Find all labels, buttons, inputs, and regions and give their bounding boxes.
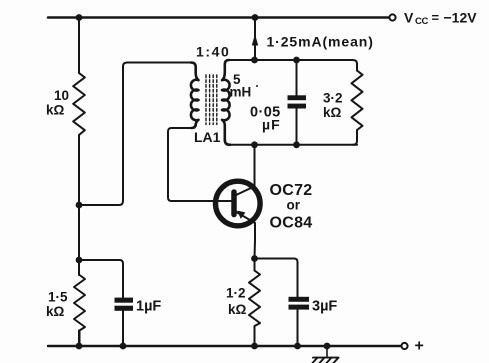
label 3.2 kOhm [323,91,343,121]
wire emitter to C3 top [255,259,298,298]
wire primary-bottom to base [168,128,232,201]
label 1.5 kOhm [46,290,68,320]
terminal Vcc [389,14,395,20]
node emitter junction [251,255,258,262]
wire top supply rail [48,16,388,19]
current arrow 1.25 mA [252,34,258,46]
svg-text:−12V: −12V [444,10,478,26]
wire left rail middle [78,135,80,275]
node tank bottom left [251,141,258,148]
svg-text:1µF: 1µF [136,299,161,315]
wire ground stub [326,346,328,358]
transistor Q1 emitter arrowhead [237,211,245,219]
capacitor C1 0.05uF plates [288,95,307,108]
svg-text:CC: CC [415,16,429,27]
wire collector lead [254,145,256,188]
transistor Q1 collector stroke [234,187,253,196]
node tank top left [251,57,258,64]
wire capacitor C2 bottom lead [122,310,124,346]
wire left rail lower [78,331,80,347]
transformer core [206,75,217,125]
label 0.05 uF [250,105,281,133]
wire capacitor C1 top lead [296,60,298,96]
svg-text:+: + [415,338,424,355]
capacitor C2 1uF plates [115,298,134,311]
svg-text:3µF: 3µF [312,299,337,315]
node bottom rail R3 [76,343,83,350]
svg-text:kΩ: kΩ [46,304,65,319]
node tank bottom capacitor tap [293,141,300,148]
svg-text:µF: µF [262,117,281,133]
wire bottom rail [48,345,400,347]
label 1.2 kOhm [226,286,247,318]
wire base feed from supply (left jog to transformer primary top) [79,63,191,206]
wire tank top line [227,60,357,71]
resistor R3 1.5k [74,275,85,346]
svg-text:mH: mH [230,85,252,100]
svg-text:or: or [287,198,301,213]
resistor R2 3.2k [352,71,363,145]
node junction left rail upper tap [76,202,83,209]
label 10 kOhm [46,88,69,118]
svg-text:1·2: 1·2 [226,286,246,301]
wire tank bottom line [228,144,357,146]
node bottom rail C2 [120,343,127,350]
wire left rail tap to C2 [79,260,123,298]
transistor Q1 base bar [231,192,237,215]
svg-text:1:40: 1:40 [196,44,230,60]
svg-text:kΩ: kΩ [228,302,247,317]
node top collector-feed junction [252,14,259,21]
node top-left junction [76,14,83,21]
capacitor C3 3uF plates [289,297,310,310]
node tank top capacitor tap [293,57,300,64]
svg-text:10: 10 [54,88,69,103]
svg-text:OC84: OC84 [270,215,313,232]
svg-text:3·2: 3·2 [323,91,343,106]
transistor Q1 emitter stroke [236,212,256,224]
svg-text:1·25mA(mean): 1·25mA(mean) [267,34,374,50]
transformer T1 secondary winding [222,60,230,145]
svg-text:V: V [404,10,414,26]
ground symbol [312,358,339,363]
label 5 mH [230,72,259,100]
wire left rail upper [78,18,80,74]
node bottom rail R4 [251,343,258,350]
resistor R4 1.2k [249,271,260,347]
svg-text:=: = [432,10,440,25]
wire collector feed vertical [254,18,256,61]
wire capacitor C3 bottom lead [297,310,299,346]
label Vcc = -12V [404,10,477,28]
transistor Q1 body circle [216,181,261,226]
svg-text:kΩ: kΩ [46,103,65,118]
transformer T1 primary winding [191,63,199,129]
node bottom rail C3 [294,343,301,350]
label OC72 or OC84 [270,182,313,232]
wire emitter lead [254,223,257,271]
terminal positive [401,343,407,349]
svg-text:kΩ: kΩ [323,105,342,120]
node left rail lower tap [76,257,83,264]
svg-text:OC72: OC72 [270,182,313,199]
svg-text:1·5: 1·5 [48,290,68,305]
resistor R1 10k [73,73,85,135]
svg-text:LA1: LA1 [194,129,221,145]
wire capacitor C1 bottom lead [296,108,298,145]
node bottom rail ground tap [324,343,331,350]
